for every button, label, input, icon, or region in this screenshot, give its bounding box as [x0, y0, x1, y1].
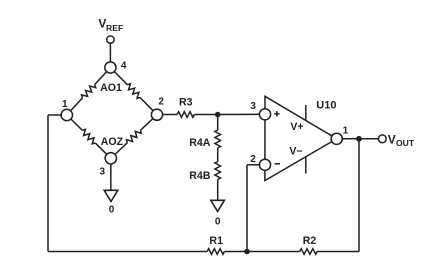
svg-text:1: 1 [343, 126, 349, 137]
svg-text:0: 0 [215, 217, 221, 228]
svg-text:0: 0 [109, 205, 115, 216]
svg-text:U10: U10 [316, 99, 336, 111]
svg-text:2: 2 [158, 97, 164, 108]
svg-text:REF: REF [106, 23, 123, 33]
svg-text:4: 4 [121, 60, 127, 71]
svg-text:3: 3 [250, 101, 256, 112]
svg-text:R4A: R4A [189, 137, 211, 149]
svg-text:R1: R1 [209, 235, 223, 247]
svg-text:V+: V+ [290, 121, 303, 133]
svg-text:V: V [388, 132, 396, 146]
svg-text:R4B: R4B [189, 170, 211, 182]
svg-text:R3: R3 [179, 96, 193, 108]
svg-text:V−: V− [289, 146, 302, 158]
svg-text:2: 2 [250, 154, 256, 165]
svg-text:AO1: AO1 [100, 82, 122, 94]
svg-text:R2: R2 [303, 235, 317, 247]
svg-text:3: 3 [100, 166, 106, 177]
svg-text:AOZ: AOZ [101, 136, 124, 148]
svg-text:OUT: OUT [396, 138, 415, 148]
svg-text:1: 1 [62, 99, 68, 110]
